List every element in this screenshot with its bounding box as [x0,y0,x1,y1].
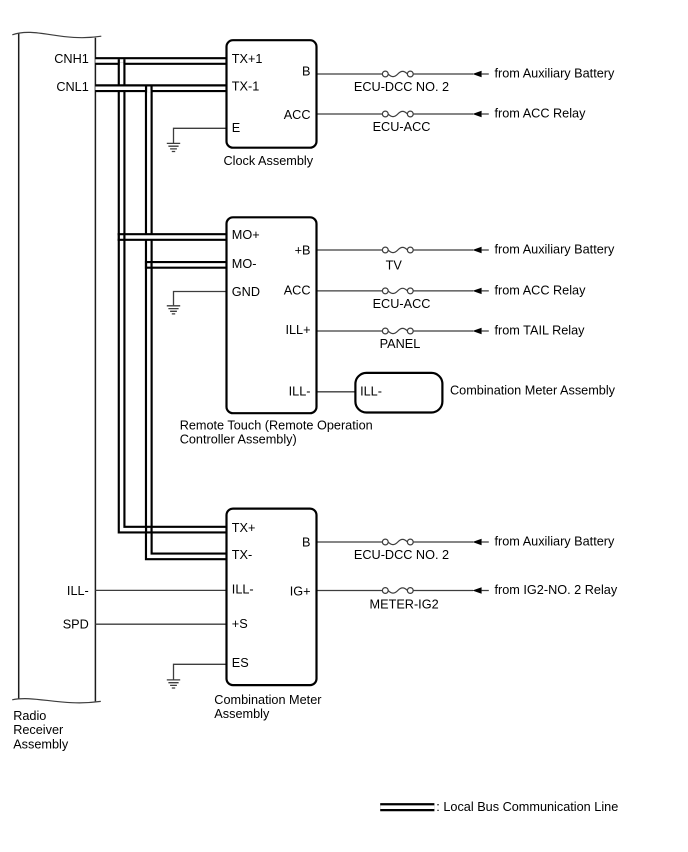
svg-text:TX-: TX- [232,548,252,562]
svg-text:ECU-ACC: ECU-ACC [373,120,431,134]
svg-text:Assembly: Assembly [214,707,270,721]
wire: local bus A (CNH1 to MO+ and TX+), vertical with corner to TX+ [122,59,227,529]
svg-text:+S: +S [232,617,248,631]
svg-text:CNH1: CNH1 [54,52,89,66]
svg-text:TX-1: TX-1 [232,79,259,93]
svg-text:ECU-DCC NO. 2: ECU-DCC NO. 2 [354,80,449,94]
svg-text:TX+1: TX+1 [232,52,263,66]
svg-text:ECU-ACC: ECU-ACC [373,297,431,311]
wire: radio SPD to combination meter +S [95,623,226,625]
svg-text:IG+: IG+ [290,584,311,598]
combination meter ILL- small box [355,373,442,413]
svg-text:ECU-DCC NO. 2: ECU-DCC NO. 2 [354,548,449,562]
svg-text:TV: TV [386,258,403,272]
wire: MO- local bus branch [145,261,227,269]
wire: clock E pin to ground [174,128,227,143]
svg-text:ACC: ACC [284,108,311,122]
svg-text:Receiver: Receiver [13,723,64,737]
svg-text:GND: GND [232,285,260,299]
wire+fuse+arrow row: remote ILL+ / PANEL [317,328,489,334]
svg-text:PANEL: PANEL [380,337,421,351]
wire+fuse+arrow row: remote ACC / ECU-ACC [317,288,489,294]
svg-text:from Auxiliary Battery: from Auxiliary Battery [495,242,616,256]
svg-text:ILL-: ILL- [289,385,311,399]
svg-text:ILL+: ILL+ [285,323,310,337]
wire: MO+ local bus branch [118,233,227,241]
svg-text:Radio: Radio [13,709,46,723]
svg-text:E: E [232,121,240,135]
ground symbol (combination meter ES) [167,680,180,688]
svg-text:ILL-: ILL- [232,582,254,596]
svg-text:MO+: MO+ [232,228,260,242]
clock assembly box [227,40,317,148]
svg-text:Assembly: Assembly [13,737,69,751]
svg-text:Combination Meter Assembly: Combination Meter Assembly [450,383,616,397]
svg-text:Combination Meter: Combination Meter [214,693,322,707]
wire+fuse+arrow row: clock ACC / ECU-ACC [317,111,489,117]
radio receiver assembly band top wavy edge [12,32,101,37]
svg-text:B: B [302,65,310,79]
svg-text:ILL-: ILL- [360,385,382,399]
svg-text:from ACC Relay: from ACC Relay [495,106,587,120]
wire: CNH1 local bus horizontal to clock TX+1 [95,57,226,65]
svg-text:B: B [302,535,310,549]
legend: local bus communication line symbol [380,803,434,811]
wire: remote touch GND pin to ground [174,292,227,306]
svg-text:TX+: TX+ [232,521,256,535]
wire+fuse+arrow row: clock B / ECU-DCC NO. 2 [317,71,489,77]
wire+fuse+arrow row: meter B / ECU-DCC NO. 2 [317,539,489,545]
svg-text:SPD: SPD [63,618,89,632]
combination meter box [227,509,317,685]
svg-text:CNL1: CNL1 [56,80,88,94]
svg-text:from TAIL Relay: from TAIL Relay [495,323,586,337]
wire: combination meter ES pin to ground [174,664,227,679]
wire: radio ILL- to combination meter ILL- [95,589,226,591]
svg-text:ACC: ACC [284,284,311,298]
wire+fuse+arrow row: meter IG+ / METER-IG2 [317,587,489,593]
wire: CNL1 local bus horizontal to clock TX-1 [95,84,226,92]
svg-text:Controller Assembly): Controller Assembly) [180,433,297,447]
wire+fuse+arrow row: remote +B / TV [317,247,489,253]
wire: remote touch ILL- to combination meter ILL- box [317,391,356,393]
junction: CNH1 bus with vertical bus A [118,59,126,65]
svg-text:ILL-: ILL- [67,584,89,598]
ground symbol (clock E) [167,143,180,151]
remote touch box [227,217,317,413]
svg-text:: Local Bus Communication Line: : Local Bus Communication Line [436,800,618,814]
svg-text:ES: ES [232,656,249,670]
svg-text:+B: +B [295,243,311,257]
svg-text:MO-: MO- [232,257,257,271]
wire: local bus B (CNL1 to MO- and TX-), vertical with corner to TX- [149,86,227,556]
radio receiver assembly shield band left line [18,34,20,699]
radio receiver assembly band bottom wavy edge [12,699,101,703]
junction: MO+ branch on bus A [118,233,126,241]
junction: bus B crossing TX+ line [145,526,153,534]
svg-text:Clock Assembly: Clock Assembly [224,154,314,168]
svg-text:from IG2-NO. 2 Relay: from IG2-NO. 2 Relay [495,583,618,597]
svg-text:from Auxiliary Battery: from Auxiliary Battery [495,66,616,80]
svg-text:from ACC Relay: from ACC Relay [495,283,587,297]
ground symbol (remote touch GND) [167,306,180,314]
radio receiver assembly shield band right line [94,38,96,702]
svg-text:from Auxiliary Battery: from Auxiliary Battery [495,534,616,548]
svg-text:METER-IG2: METER-IG2 [370,598,439,612]
junction: CNL1 bus with vertical bus B [145,86,153,92]
junction: MO- branch on bus B [145,261,153,269]
svg-text:Remote Touch (Remote Operation: Remote Touch (Remote Operation [180,419,373,433]
